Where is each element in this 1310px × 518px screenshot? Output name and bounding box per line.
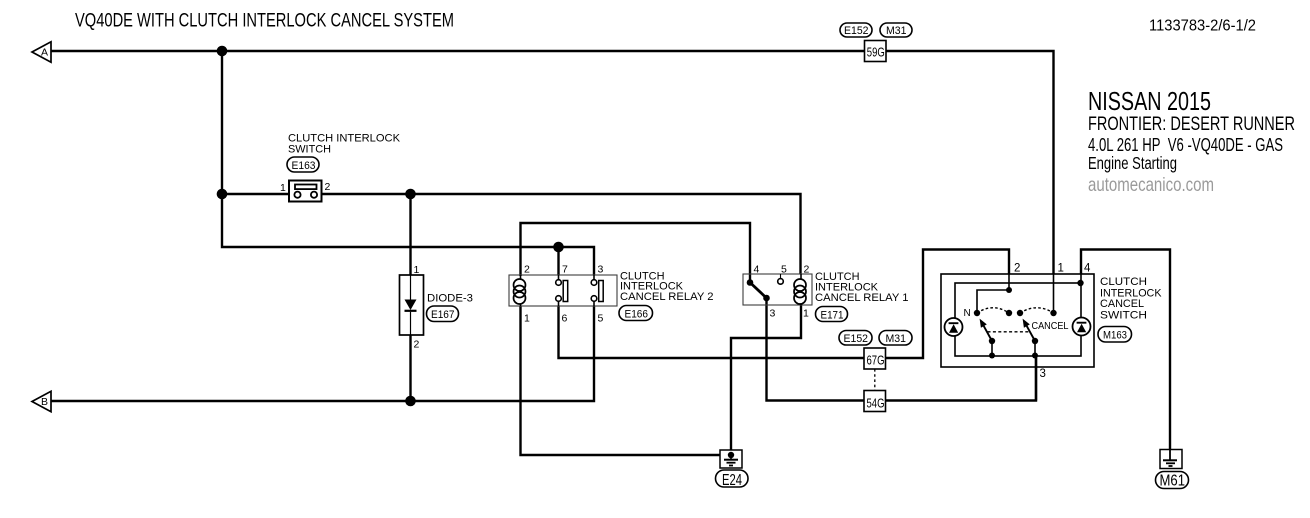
svg-text:67G: 67G bbox=[867, 353, 885, 367]
svg-text:automecanico.com: automecanico.com bbox=[1088, 174, 1214, 196]
svg-text:Engine Starting: Engine Starting bbox=[1088, 153, 1177, 173]
wire: relay1 pin 1 down left to ground E24 bbox=[731, 305, 801, 452]
svg-text:5: 5 bbox=[781, 264, 787, 276]
connector oval E152 (top) bbox=[840, 23, 872, 37]
svg-text:2: 2 bbox=[804, 264, 810, 276]
wire: relay2 pin 6 down and right to splice 67G bbox=[559, 306, 866, 359]
M163 internal branch to N contact bbox=[977, 290, 1009, 313]
svg-text:VQ40DE WITH CLUTCH INTERLOCK C: VQ40DE WITH CLUTCH INTERLOCK CANCEL SYST… bbox=[75, 11, 454, 32]
connector oval M163 bbox=[1098, 327, 1132, 343]
ground M61 bbox=[1160, 450, 1182, 469]
svg-text:E163: E163 bbox=[292, 160, 316, 172]
connector oval E24 bbox=[716, 470, 749, 489]
svg-text:CANCEL: CANCEL bbox=[1032, 320, 1069, 332]
M163 node pin2 entry bbox=[1006, 287, 1012, 293]
relay1 switch arm pin 4 to pin 3 bbox=[747, 279, 770, 301]
svg-text:3: 3 bbox=[770, 308, 776, 320]
connector oval M31 (mid) bbox=[879, 331, 912, 346]
wire: relay2 pin 2 up over to relay1 pin 4 bbox=[521, 223, 751, 282]
connector oval E171 bbox=[816, 307, 848, 322]
connector oval E152 (mid) bbox=[839, 331, 872, 346]
M163 pin 3 lead bbox=[1035, 356, 1037, 401]
svg-text:2: 2 bbox=[1014, 263, 1020, 275]
relay2 coil (pins 2-1) bbox=[514, 275, 526, 306]
svg-text:CLUTCH: CLUTCH bbox=[1100, 276, 1147, 288]
relay1 E171 box bbox=[743, 274, 812, 305]
svg-text:E166: E166 bbox=[625, 308, 649, 320]
M163 pin 4 internal lead bbox=[1080, 274, 1082, 283]
M163 LED left bbox=[945, 318, 963, 336]
label: CLUTCH INTERLOCK CANCEL SWITCH (M163) bbox=[1100, 276, 1162, 322]
M163 node below pin 2 bbox=[1006, 310, 1012, 316]
M163 clutch interlock cancel switch outer box bbox=[941, 274, 1094, 367]
connector B off-page arrow bbox=[32, 391, 51, 411]
svg-text:2: 2 bbox=[414, 339, 420, 351]
svg-text:E171: E171 bbox=[821, 309, 844, 321]
wire: splice 67G right then up to M163 pin 2 bbox=[885, 250, 1009, 359]
svg-text:59G: 59G bbox=[867, 46, 885, 60]
svg-text:B: B bbox=[41, 396, 48, 408]
svg-text:4: 4 bbox=[754, 264, 760, 276]
svg-text:E24: E24 bbox=[722, 472, 742, 489]
M163 node cancel-arc left bbox=[1017, 310, 1023, 316]
svg-text:7: 7 bbox=[562, 264, 568, 276]
svg-text:M31: M31 bbox=[886, 333, 907, 345]
svg-text:2: 2 bbox=[524, 264, 530, 276]
svg-text:CANCEL: CANCEL bbox=[1100, 298, 1144, 310]
wire: splice 54G right then up to M163 pin 3 bbox=[885, 356, 1036, 401]
svg-text:1: 1 bbox=[524, 313, 530, 325]
svg-text:N: N bbox=[964, 308, 971, 319]
svg-text:M61: M61 bbox=[1160, 473, 1186, 490]
diode DIODE-3 E167 bbox=[400, 275, 424, 335]
svg-text:E152: E152 bbox=[844, 25, 869, 37]
svg-text:DIODE-3: DIODE-3 bbox=[427, 293, 473, 305]
svg-text:4: 4 bbox=[1084, 263, 1091, 275]
M163 inner frame bbox=[955, 283, 1081, 356]
svg-text:1: 1 bbox=[414, 264, 420, 276]
M163 node pin 1 contact bbox=[1050, 310, 1056, 316]
node: junction B wire / diode bottom bbox=[405, 396, 416, 407]
M163 pin 2 internal lead bbox=[1008, 274, 1010, 290]
clutch interlock switch E163 body bbox=[289, 181, 322, 202]
svg-text:1: 1 bbox=[1058, 263, 1064, 275]
connector oval E163 bbox=[287, 157, 319, 172]
M163 node N contact bbox=[974, 310, 980, 316]
node: junction switch output / diode top bbox=[405, 189, 416, 200]
M163 dashed arc N position bbox=[977, 308, 1009, 313]
svg-text:1: 1 bbox=[803, 308, 809, 320]
svg-text:E167: E167 bbox=[431, 309, 455, 321]
ground E24 bbox=[720, 450, 742, 468]
svg-text:6: 6 bbox=[562, 313, 568, 325]
svg-text:SWITCH: SWITCH bbox=[1100, 310, 1147, 322]
relay2 contact pins 7-6 bbox=[556, 275, 568, 306]
svg-text:E152: E152 bbox=[844, 333, 869, 345]
dashed link between 67G and 54G bbox=[874, 369, 876, 391]
label: CLUTCH INTERLOCK CANCEL RELAY 2 bbox=[620, 270, 714, 303]
M163 switch arm 1 with arrow bbox=[980, 319, 996, 359]
node: junction feeding relay2 pin 7 bbox=[553, 242, 564, 253]
wire: main feed from connector A to M163 pin 1 bbox=[51, 51, 1054, 275]
relay2 E166 box bbox=[509, 275, 617, 306]
wire: branch from node at x=222 down and right to relay2 pin 3 bbox=[222, 51, 594, 276]
node: junction A-feed / E163 branch bbox=[217, 46, 228, 57]
M163 switch arm 2 with arrow bbox=[1023, 319, 1039, 359]
splice 67G bbox=[864, 348, 886, 369]
relay2 contact pins 3-5 bbox=[591, 275, 603, 306]
svg-text:NISSAN 2015: NISSAN 2015 bbox=[1088, 86, 1211, 116]
wire: drop from node 558,247 to relay2 pin 7 bbox=[557, 247, 559, 276]
connector oval M61 bbox=[1156, 472, 1189, 490]
svg-text:FRONTIER: DESERT RUNNER: FRONTIER: DESERT RUNNER bbox=[1088, 114, 1295, 135]
wire: relay2 pin 1 down and right to ground E24 bbox=[521, 306, 730, 456]
relay1 pin 5 contact bbox=[778, 274, 784, 284]
M163 pin 1 internal lead bbox=[1053, 274, 1055, 313]
svg-text:5: 5 bbox=[598, 313, 604, 325]
svg-text:3: 3 bbox=[598, 264, 604, 276]
splice 54G bbox=[864, 391, 886, 412]
svg-text:2: 2 bbox=[325, 181, 331, 193]
wire: node at 222,194 left stub to clutch interlock switch pin 1 bbox=[222, 193, 295, 195]
svg-text:CANCEL RELAY 2: CANCEL RELAY 2 bbox=[620, 291, 714, 303]
node: junction at E163 switch row bbox=[217, 189, 228, 200]
wire: M163 pin 4 up right and down to ground M61 bbox=[1081, 250, 1170, 451]
splice 59G bbox=[865, 41, 887, 62]
wire: relay1 pin 3 down and right to splice 54G bbox=[767, 297, 866, 401]
wire: connector B line to relay2 pin 5 bbox=[51, 306, 594, 401]
svg-text:A: A bbox=[41, 47, 48, 59]
M163 dashed arc CANCEL position bbox=[1020, 308, 1054, 313]
label: CLUTCH INTERLOCK SWITCH (E163) bbox=[288, 133, 401, 156]
wire: switch pin 2 to relay1 pin 2 (coil) bbox=[317, 194, 801, 275]
svg-text:1: 1 bbox=[280, 182, 286, 194]
svg-text:4.0L 261 HP V6 -VQ40DE - GAS: 4.0L 261 HP V6 -VQ40DE - GAS bbox=[1088, 135, 1283, 155]
svg-text:M163: M163 bbox=[1103, 330, 1127, 342]
M163 dashed mechanical link bbox=[988, 331, 1030, 333]
connector oval E166 bbox=[619, 306, 653, 321]
svg-text:54G: 54G bbox=[867, 396, 885, 410]
wire: diode top lead from node 410,194 bbox=[409, 194, 411, 276]
connector oval E167 bbox=[427, 306, 459, 322]
connector A off-page arrow bbox=[32, 42, 51, 62]
M163 node pin 4 at inner frame corner bbox=[1077, 280, 1083, 286]
svg-text:3: 3 bbox=[1040, 368, 1046, 380]
svg-text:SWITCH: SWITCH bbox=[288, 144, 331, 156]
relay1 coil (pins 2-1) bbox=[794, 274, 806, 305]
svg-text:CANCEL RELAY 1: CANCEL RELAY 1 bbox=[815, 292, 909, 304]
wire: diode bottom lead to node 410,401 bbox=[409, 334, 411, 401]
svg-text:M31: M31 bbox=[886, 25, 907, 37]
M163 LED right bbox=[1073, 318, 1091, 336]
svg-text:1133783-2/6-1/2: 1133783-2/6-1/2 bbox=[1149, 18, 1256, 35]
connector oval M31 (top) bbox=[880, 23, 912, 37]
label: CLUTCH INTERLOCK CANCEL RELAY 1 bbox=[815, 271, 909, 304]
